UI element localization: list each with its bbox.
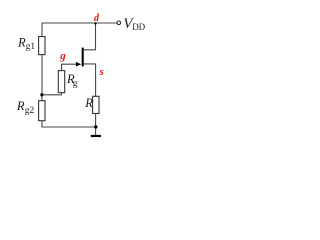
- svg-text:g2: g2: [25, 106, 35, 116]
- svg-text:g: g: [73, 79, 78, 89]
- wire: junction to Rg bottom: [42, 93, 62, 95]
- wire: Rg2 bottom to ground rail: [42, 121, 96, 127]
- svg-text:R: R: [84, 96, 93, 110]
- resistor Rg1: [39, 37, 45, 55]
- wire: drain lead: [83, 23, 96, 50]
- transistor Q1 gate arrowhead: [76, 62, 81, 67]
- VDD terminal circle: [117, 21, 121, 25]
- transistor Q1 channel bar: [82, 48, 84, 67]
- ground: [91, 135, 101, 137]
- svg-text:g1: g1: [26, 42, 36, 52]
- wire: gate lead from Rg corner to arrow: [62, 64, 78, 70]
- resistor Rg2: [39, 101, 45, 121]
- wire: source lead down to R: [83, 64, 96, 96]
- svg-text:s: s: [99, 66, 104, 78]
- wire: top rail from left corner to VDD terminal: [42, 22, 117, 24]
- wire: left branch vertical (top rail to Rg1): [41, 23, 43, 37]
- wire: R bottom to ground: [95, 114, 97, 136]
- svg-text:R: R: [16, 99, 25, 113]
- svg-text:DD: DD: [132, 22, 145, 32]
- wire: left vertical between Rg1 and Rg2: [41, 55, 43, 101]
- resistor R: [93, 96, 99, 113]
- node: drain junction on rail: [94, 22, 96, 24]
- resistor Rg: [58, 71, 64, 93]
- node: source/ground junction dot: [94, 125, 97, 128]
- node: gate divider junction dot: [40, 93, 43, 96]
- svg-text:g: g: [59, 50, 66, 62]
